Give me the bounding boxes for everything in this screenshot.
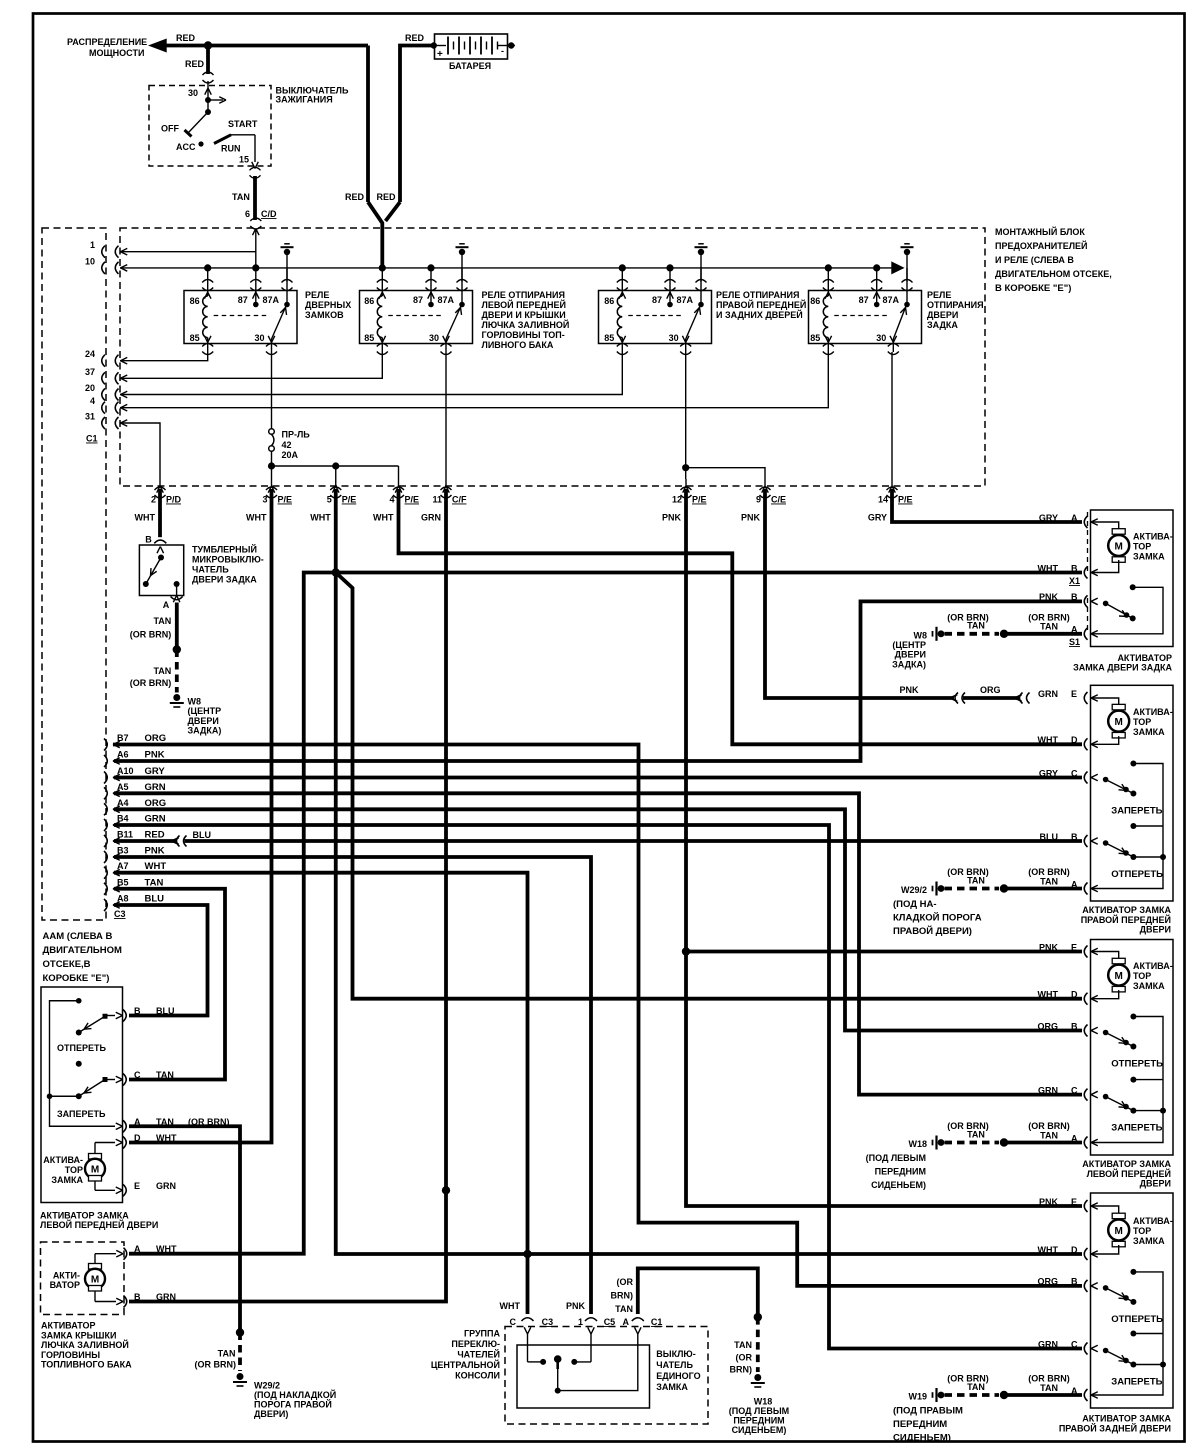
svg-text:ОТПЕРЕТЬ: ОТПЕРЕТЬ xyxy=(1111,869,1163,880)
svg-text:ЗАМКА: ЗАМКА xyxy=(1133,981,1165,991)
svg-text:C: C xyxy=(134,1070,141,1080)
actuator pin A xyxy=(116,1123,123,1126)
svg-text:В КОРОБКЕ "Е"): В КОРОБКЕ "Е") xyxy=(995,283,1071,294)
svg-text:АКТИВАТОР ЗАМКА: АКТИВАТОР ЗАМКА xyxy=(40,1211,129,1221)
svg-text:ЧАТЕЛЕЙ: ЧАТЕЛЕЙ xyxy=(457,1349,500,1360)
svg-text:ДВЕРИ: ДВЕРИ xyxy=(188,716,219,726)
svg-text:ОТПИРАНИЯ: ОТПИРАНИЯ xyxy=(927,300,984,310)
svg-text:ЧАТЕЛЬ: ЧАТЕЛЬ xyxy=(192,565,229,575)
svg-text:BLU: BLU xyxy=(156,1006,175,1016)
svg-text:RUN: RUN xyxy=(221,144,241,154)
svg-text:S1: S1 xyxy=(1069,637,1080,647)
svg-text:37: 37 xyxy=(85,367,95,377)
svg-text:TAN: TAN xyxy=(967,875,985,885)
svg-text:ДВЕРИ ЗАДКА: ДВЕРИ ЗАДКА xyxy=(192,574,257,584)
svg-text:GRN: GRN xyxy=(1038,1085,1058,1095)
svg-text:TAN: TAN xyxy=(967,621,985,631)
svg-text:M: M xyxy=(91,1275,99,1286)
relay internal dashed link xyxy=(214,315,268,317)
svg-text:ПЕРЕДНИМ: ПЕРЕДНИМ xyxy=(733,1416,784,1426)
svg-text:СИДЕНЬЕМ): СИДЕНЬЕМ) xyxy=(732,1425,787,1435)
svg-text:РЕЛЕ ОТПИРАНИЯ: РЕЛЕ ОТПИРАНИЯ xyxy=(482,290,565,300)
svg-text:RED: RED xyxy=(377,192,397,202)
svg-text:ЗАДКА): ЗАДКА) xyxy=(188,726,222,736)
svg-text:87A: 87A xyxy=(262,295,279,305)
svg-text:ДВЕРИ: ДВЕРИ xyxy=(927,310,958,320)
actuator pin B xyxy=(116,1298,123,1301)
connector 6 C/D xyxy=(250,218,261,221)
svg-text:ДВЕРИ: ДВЕРИ xyxy=(1140,1179,1171,1189)
relay coil xyxy=(203,296,208,338)
wire WHT pin 4 to right front door actuator pin D xyxy=(399,489,1083,744)
switch actuator xyxy=(554,1355,562,1363)
svg-text:ЗАПЕРЕТЬ: ЗАПЕРЕТЬ xyxy=(57,1109,106,1119)
svg-text:ДВЕРИ: ДВЕРИ xyxy=(895,650,926,660)
svg-text:B: B xyxy=(134,1006,141,1016)
svg-text:ДВЕРИ И КРЫШКИ: ДВЕРИ И КРЫШКИ xyxy=(482,310,566,320)
svg-text:ORG: ORG xyxy=(145,798,167,809)
svg-text:(OR BRN): (OR BRN) xyxy=(1028,867,1070,877)
svg-text:ACC: ACC xyxy=(176,142,196,152)
svg-text:PNK: PNK xyxy=(1039,942,1059,952)
svg-text:ЗАМКА: ЗАМКА xyxy=(1133,1236,1165,1246)
svg-text:WHT: WHT xyxy=(1038,1245,1059,1255)
wire fuse output xyxy=(271,452,273,480)
fuse distribution wire xyxy=(272,465,399,467)
svg-text:ЗАДКА: ЗАДКА xyxy=(927,320,958,330)
svg-text:(OR BRN): (OR BRN) xyxy=(130,678,172,688)
svg-text:C/F: C/F xyxy=(452,495,467,505)
svg-text:ЛЮЧКА ЗАЛИВНОЙ: ЛЮЧКА ЗАЛИВНОЙ xyxy=(482,319,570,330)
relay pin 87 xyxy=(876,268,878,303)
svg-text:B: B xyxy=(1071,563,1078,573)
svg-text:PNK: PNK xyxy=(1039,1197,1059,1207)
svg-text:E: E xyxy=(1071,942,1077,952)
svg-text:W8: W8 xyxy=(188,697,202,707)
svg-text:W29/2: W29/2 xyxy=(254,1380,280,1390)
svg-text:20: 20 xyxy=(85,383,95,393)
relay contact arm 30-87A xyxy=(446,306,461,339)
actuator motor xyxy=(1112,1213,1125,1219)
svg-text:RED: RED xyxy=(345,192,365,202)
svg-text:PNK: PNK xyxy=(741,513,761,523)
ground above relay K3 xyxy=(698,243,704,245)
svg-text:(ПОД ПРАВЫМ: (ПОД ПРАВЫМ xyxy=(893,1406,963,1417)
svg-text:(OR BRN): (OR BRN) xyxy=(130,630,172,640)
svg-text:АКТИВАТОР ЗАМКА: АКТИВАТОР ЗАМКА xyxy=(1082,1414,1171,1424)
svg-text:ВАТОР: ВАТОР xyxy=(50,1280,80,1290)
svg-text:(OR BRN): (OR BRN) xyxy=(195,1359,237,1369)
svg-text:ЛИВНОГО БАКА: ЛИВНОГО БАКА xyxy=(482,340,554,350)
svg-text:ПЕРЕКЛЮ-: ПЕРЕКЛЮ- xyxy=(451,1339,500,1349)
svg-text:ЗАПЕРЕТЬ: ЗАПЕРЕТЬ xyxy=(1111,1377,1162,1388)
svg-text:GRY: GRY xyxy=(145,766,166,777)
wire WHT pin 5 trunk xyxy=(334,489,338,573)
svg-text:МОНТАЖНЫЙ БЛОК: МОНТАЖНЫЙ БЛОК xyxy=(995,226,1085,237)
svg-text:ЗАМКА ДВЕРИ ЗАДКА: ЗАМКА ДВЕРИ ЗАДКА xyxy=(1073,663,1172,673)
svg-text:5: 5 xyxy=(327,495,332,505)
actuator motor xyxy=(1112,958,1125,964)
middle free contact xyxy=(1130,823,1136,829)
svg-text:ПРЕДОХРАНИТЕЛЕЙ: ПРЕДОХРАНИТЕЛЕЙ xyxy=(995,240,1088,251)
svg-text:14: 14 xyxy=(878,495,888,505)
wire WHT pin 2 to tailgate microswitch xyxy=(158,489,162,537)
svg-text:(ПОД ЛЕВЫМ: (ПОД ЛЕВЫМ xyxy=(866,1153,926,1163)
svg-text:TAN: TAN xyxy=(153,666,171,676)
svg-text:TAN: TAN xyxy=(153,616,171,626)
ground above relay K1 xyxy=(284,243,290,245)
battery terminals xyxy=(431,42,437,48)
svg-text:ЗАМКА КРЫШКИ: ЗАМКА КРЫШКИ xyxy=(41,1330,116,1340)
wire ORG B7 to right rear door actuator pin B xyxy=(113,745,1082,1286)
svg-text:-: - xyxy=(501,46,504,56)
wire relay K4 85 to pin 4 xyxy=(120,352,828,408)
svg-text:TAN: TAN xyxy=(156,1070,174,1080)
svg-text:КОРОБКЕ "Е"): КОРОБКЕ "Е") xyxy=(43,973,110,984)
relay box at x=598.5 xyxy=(599,291,712,344)
svg-text:PNK: PNK xyxy=(145,750,165,761)
svg-text:RED: RED xyxy=(145,830,165,841)
relay pin 87 xyxy=(669,268,671,303)
svg-text:ЦЕНТРАЛЬНОЙ: ЦЕНТРАЛЬНОЙ xyxy=(431,1359,500,1370)
block pin 3 P/E xyxy=(268,486,271,493)
wire WHT branch to fuel filler actuator pin A xyxy=(129,573,336,1254)
relay coil xyxy=(823,296,828,338)
switch common bar xyxy=(1091,764,1163,889)
svg-text:WHT: WHT xyxy=(1038,735,1059,745)
ground above relay K2 xyxy=(459,243,465,245)
ground W8 left xyxy=(173,694,180,701)
relay contact arm 30-87A xyxy=(272,306,287,339)
upper switch arm xyxy=(1103,777,1109,783)
svg-text:P/E: P/E xyxy=(405,495,420,505)
svg-text:86: 86 xyxy=(190,296,200,306)
svg-text:ПЕРЕДНИМ: ПЕРЕДНИМ xyxy=(875,1167,926,1177)
svg-text:ААМ (СЛЕВА В: ААМ (СЛЕВА В xyxy=(43,931,113,942)
wire ORG segment xyxy=(963,696,1019,700)
svg-text:АКТИВА-: АКТИВА- xyxy=(43,1155,83,1165)
svg-text:TAN: TAN xyxy=(145,877,164,888)
svg-text:D: D xyxy=(1071,1245,1078,1255)
svg-text:P/E: P/E xyxy=(898,495,913,505)
wire WHT pin 3 to left door actuator pin D xyxy=(129,489,272,1143)
tailgate switch arm xyxy=(1103,601,1109,607)
svg-text:BLU: BLU xyxy=(145,894,165,905)
svg-text:C3: C3 xyxy=(114,909,126,919)
svg-text:TAN: TAN xyxy=(1040,1130,1058,1140)
door actuator box xyxy=(1091,940,1174,1156)
wire ORG A4 to left front door actuator pin B xyxy=(114,809,1082,1030)
svg-text:30: 30 xyxy=(876,333,886,343)
relay internal dashed link xyxy=(628,315,681,317)
relay box at x=808.5 xyxy=(809,291,922,344)
wire RED down-left xyxy=(366,46,370,203)
svg-text:GRY: GRY xyxy=(1039,513,1058,523)
block pin 9 C/E xyxy=(762,486,765,493)
relay box at x=184 xyxy=(184,291,297,344)
svg-text:3: 3 xyxy=(262,495,267,505)
svg-text:ПРАВОЙ ДВЕРИ): ПРАВОЙ ДВЕРИ) xyxy=(893,925,972,937)
actuator pin E xyxy=(116,1187,123,1190)
svg-text:1: 1 xyxy=(578,1317,583,1327)
svg-text:START: START xyxy=(228,119,258,129)
svg-text:ТОР: ТОР xyxy=(65,1165,83,1175)
svg-text:87: 87 xyxy=(413,295,423,305)
svg-text:(ЦЕНТР: (ЦЕНТР xyxy=(892,640,926,650)
block pin 2 P/D xyxy=(157,486,160,493)
wire WHT branch to right rear door actuator pin D xyxy=(336,573,1082,1255)
svg-text:GRY: GRY xyxy=(868,513,887,523)
ignition internal node xyxy=(205,97,211,103)
ground W18 under left front seat xyxy=(754,1374,761,1381)
svg-text:WHT: WHT xyxy=(310,513,331,523)
svg-text:10: 10 xyxy=(85,256,95,266)
svg-text:85: 85 xyxy=(810,333,820,343)
svg-text:ОТСЕКЕ,В: ОТСЕКЕ,В xyxy=(43,959,91,970)
svg-text:W18: W18 xyxy=(754,1397,773,1407)
wire TAN to ground W8 xyxy=(175,603,179,650)
ground above relay K4 xyxy=(904,243,910,245)
single lock switch box xyxy=(517,1345,650,1408)
svg-text:(OR: (OR xyxy=(617,1277,634,1287)
svg-text:ЗАМКА: ЗАМКА xyxy=(51,1175,83,1185)
svg-text:M: M xyxy=(1115,1226,1123,1237)
wire START to pin 15 xyxy=(230,134,255,136)
switch common bar xyxy=(50,1001,116,1127)
wire RED to ignition switch xyxy=(206,46,210,75)
svg-text:C5: C5 xyxy=(604,1317,616,1327)
svg-text:BLU: BLU xyxy=(193,830,212,840)
svg-text:ЗАМКА: ЗАМКА xyxy=(656,1382,688,1392)
svg-text:ПРАВОЙ ПЕРЕДНЕЙ: ПРАВОЙ ПЕРЕДНЕЙ xyxy=(716,299,806,310)
svg-text:A: A xyxy=(1071,513,1078,523)
door actuator box xyxy=(1091,685,1174,901)
svg-text:12: 12 xyxy=(672,495,682,505)
svg-text:WHT: WHT xyxy=(246,513,267,523)
svg-text:АКТИВАТОР: АКТИВАТОР xyxy=(1117,653,1172,663)
svg-text:ДВИГАТЕЛЬНОМ ОТСЕКЕ,: ДВИГАТЕЛЬНОМ ОТСЕКЕ, xyxy=(995,269,1112,279)
svg-text:ТУМБЛЕРНЫЙ: ТУМБЛЕРНЫЙ xyxy=(192,544,257,555)
svg-text:W8: W8 xyxy=(914,630,928,640)
svg-text:ДВЕРИ: ДВЕРИ xyxy=(1140,925,1171,935)
wire PNK pin 12 xyxy=(686,489,1082,1206)
wire TAN console pin A to ground W18 xyxy=(638,1268,758,1317)
relay coil xyxy=(617,296,622,338)
svg-text:4: 4 xyxy=(90,396,95,406)
wire WHT branch to tailgate actuator pin B xyxy=(336,571,1082,575)
left front door lock actuator box xyxy=(41,987,123,1203)
connector on RED wire xyxy=(203,72,214,75)
lower switch arm xyxy=(1103,1094,1109,1100)
svg-text:11: 11 xyxy=(432,495,442,505)
relay pin 87A xyxy=(286,268,288,303)
wire relay K2 30 to pin 11 xyxy=(445,352,447,479)
switch common bar xyxy=(1091,1017,1163,1143)
svg-text:ТОР: ТОР xyxy=(1133,717,1151,727)
wire GRY pin 14 to tailgate actuator pin A xyxy=(892,489,1082,522)
ignition switch box xyxy=(149,86,271,167)
battery xyxy=(435,34,508,59)
svg-text:ЛЕВОЙ ПЕРЕДНЕЙ: ЛЕВОЙ ПЕРЕДНЕЙ xyxy=(482,299,566,310)
svg-text:КЛАДКОЙ ПОРОГА: КЛАДКОЙ ПОРОГА xyxy=(893,912,982,924)
svg-text:ВЫКЛЮ-: ВЫКЛЮ- xyxy=(656,1349,695,1359)
svg-text:ЗАМКА: ЗАМКА xyxy=(1133,552,1165,562)
wire GRN A5 to left front door actuator pin C xyxy=(114,793,1082,1094)
svg-text:(OR: (OR xyxy=(736,1352,753,1362)
svg-text:СИДЕНЬЕМ): СИДЕНЬЕМ) xyxy=(893,1433,951,1444)
wire to block pin 5 xyxy=(335,466,337,479)
svg-text:WHT: WHT xyxy=(156,1244,177,1254)
relay internal dashed link xyxy=(388,315,442,317)
V merge of RED wires xyxy=(368,202,382,268)
fuel filler lock actuator box xyxy=(41,1242,125,1315)
svg-text:W19: W19 xyxy=(908,1392,927,1402)
wire relay K1 85 to pin 24 xyxy=(120,352,208,361)
block pin 11 C/F xyxy=(443,486,446,493)
svg-text:6: 6 xyxy=(245,209,250,219)
svg-text:ЗАЖИГАНИЯ: ЗАЖИГАНИЯ xyxy=(276,95,333,105)
actuator motor xyxy=(1112,704,1125,710)
relay contact arm 30-87A xyxy=(686,306,700,339)
tailgate switch common xyxy=(1130,584,1136,590)
svg-text:C: C xyxy=(1071,768,1078,778)
svg-text:GRN: GRN xyxy=(1038,689,1058,699)
relay pin 87A xyxy=(700,268,702,303)
svg-text:ПЕРЕДНИМ: ПЕРЕДНИМ xyxy=(893,1419,947,1430)
ground W29/2 left xyxy=(237,1373,244,1380)
svg-text:4: 4 xyxy=(389,495,394,505)
svg-text:24: 24 xyxy=(85,349,95,359)
svg-text:M: M xyxy=(1115,971,1123,982)
AAM module box (dashed) xyxy=(42,228,106,920)
svg-text:TAN: TAN xyxy=(1040,622,1058,632)
wire PNK pin 9 to right front door actuator pin E xyxy=(765,489,954,698)
motor wiring xyxy=(1091,522,1119,531)
svg-text:E: E xyxy=(1071,689,1077,699)
svg-text:ЛЕВОЙ ПЕРЕДНЕЙ: ЛЕВОЙ ПЕРЕДНЕЙ xyxy=(1087,1168,1171,1179)
svg-text:ТОПЛИВНОГО БАКА: ТОПЛИВНОГО БАКА xyxy=(41,1360,132,1370)
relay coil xyxy=(377,296,382,338)
svg-text:РЕЛЕ: РЕЛЕ xyxy=(305,290,329,300)
svg-text:E: E xyxy=(134,1181,140,1191)
svg-text:GRN: GRN xyxy=(145,782,166,793)
wire relay K3 30 to pins 12 and 9 xyxy=(685,352,687,479)
ignition switch arm xyxy=(188,112,208,133)
svg-text:ЛЮЧКА ЗАЛИВНОЙ: ЛЮЧКА ЗАЛИВНОЙ xyxy=(41,1339,129,1350)
svg-text:КОНСОЛИ: КОНСОЛИ xyxy=(455,1371,500,1381)
svg-text:30: 30 xyxy=(254,333,264,343)
svg-text:GRN: GRN xyxy=(1038,1339,1058,1349)
relay pin 86 xyxy=(621,268,623,296)
svg-text:OFF: OFF xyxy=(161,124,179,134)
block pin 12 P/E xyxy=(683,486,686,493)
svg-text:(ПОД ЛЕВЫМ: (ПОД ЛЕВЫМ xyxy=(729,1406,789,1416)
svg-text:TAN: TAN xyxy=(967,1129,985,1139)
relay pin 86 xyxy=(207,268,209,296)
svg-text:WHT: WHT xyxy=(156,1133,177,1143)
svg-text:РАСПРЕДЕЛЕНИЕ: РАСПРЕДЕЛЕНИЕ xyxy=(67,37,147,47)
svg-text:M: M xyxy=(1115,541,1123,552)
svg-text:ОТПЕРЕТЬ: ОТПЕРЕТЬ xyxy=(1111,1314,1163,1325)
svg-text:15: 15 xyxy=(239,155,249,165)
svg-text:87A: 87A xyxy=(676,295,693,305)
switch common to pin A xyxy=(557,1369,559,1391)
relay pin 87A xyxy=(461,268,463,303)
svg-text:31: 31 xyxy=(85,412,95,422)
wire TAN from ignition xyxy=(253,176,257,220)
relay pin 86 xyxy=(381,268,383,296)
svg-text:АКТИВАТОР ЗАМКА: АКТИВАТОР ЗАМКА xyxy=(1082,1159,1171,1169)
svg-text:RED: RED xyxy=(405,33,425,43)
wire into fuse block xyxy=(255,229,257,268)
inline connector PNK-ORG xyxy=(955,693,958,704)
svg-text:И ЗАДНИХ ДВЕРЕЙ: И ЗАДНИХ ДВЕРЕЙ xyxy=(716,309,803,320)
svg-text:20А: 20А xyxy=(282,450,299,460)
block pin 5 P/E xyxy=(332,486,335,493)
svg-text:87A: 87A xyxy=(437,295,454,305)
wire RED B11 segment xyxy=(114,839,176,843)
svg-text:(OR BRN): (OR BRN) xyxy=(1028,613,1070,623)
svg-text:ЕДИНОГО: ЕДИНОГО xyxy=(656,1371,700,1381)
svg-text:ОТПЕРЕТЬ: ОТПЕРЕТЬ xyxy=(57,1043,106,1053)
relay pin 87 xyxy=(255,268,257,303)
svg-text:TAN: TAN xyxy=(1040,1383,1058,1393)
wire GRN B4 to right rear door actuator pin C xyxy=(114,825,1082,1349)
inline connector RED-BLU xyxy=(177,836,180,847)
svg-text:1: 1 xyxy=(90,240,95,250)
svg-text:P/E: P/E xyxy=(278,495,293,505)
svg-text:ДВЕРНЫХ: ДВЕРНЫХ xyxy=(305,300,351,310)
svg-text:TAN: TAN xyxy=(734,1340,752,1350)
svg-text:B: B xyxy=(1071,1277,1078,1287)
switch common bar xyxy=(1091,1272,1163,1395)
svg-text:АКТИВА-: АКТИВА- xyxy=(1133,532,1173,542)
svg-text:ЧАТЕЛЬ: ЧАТЕЛЬ xyxy=(656,1360,693,1370)
wire relay K3 85 to pin 20 xyxy=(120,352,622,395)
wire BLU to right front door actuator pin B xyxy=(185,839,1083,843)
power bus inside fuse block xyxy=(120,267,894,269)
svg-text:C: C xyxy=(510,1317,517,1327)
svg-text:BLU: BLU xyxy=(1040,832,1059,842)
svg-text:BRN): BRN) xyxy=(730,1365,753,1375)
svg-text:B: B xyxy=(1071,592,1078,602)
door actuator box xyxy=(1091,1193,1174,1408)
svg-text:85: 85 xyxy=(604,333,614,343)
svg-text:TAN: TAN xyxy=(232,192,250,202)
wire PNK B3 to console switch pin 1 xyxy=(114,857,591,1314)
relay pin 87 xyxy=(430,268,432,303)
svg-text:ГОРЛОВИНЫ ТОП-: ГОРЛОВИНЫ ТОП- xyxy=(482,330,565,340)
svg-text:ЗАМКА: ЗАМКА xyxy=(1133,727,1165,737)
svg-text:85: 85 xyxy=(190,333,200,343)
RUN contact xyxy=(214,135,231,144)
svg-text:42: 42 xyxy=(282,440,292,450)
svg-text:TAN: TAN xyxy=(615,1304,633,1314)
svg-text:ПОРОГА ПРАВОЙ: ПОРОГА ПРАВОЙ xyxy=(254,1398,332,1409)
svg-text:(ЦЕНТР: (ЦЕНТР xyxy=(188,706,222,716)
svg-text:ОТПЕРЕТЬ: ОТПЕРЕТЬ xyxy=(1111,1059,1163,1070)
junction GRN with left door actuator pin E xyxy=(442,1186,450,1194)
wire pin 1 to C/D xyxy=(120,251,256,253)
svg-text:PNK: PNK xyxy=(145,846,165,857)
svg-text:WHT: WHT xyxy=(373,513,394,523)
svg-text:МОЩНОСТИ: МОЩНОСТИ xyxy=(89,48,144,58)
svg-text:GRN: GRN xyxy=(156,1181,176,1191)
svg-text:ORG: ORG xyxy=(980,685,1001,695)
svg-text:C/D: C/D xyxy=(261,209,277,219)
fuse and relay block (dashed) xyxy=(120,228,985,486)
svg-text:ЗАПЕРЕТЬ: ЗАПЕРЕТЬ xyxy=(1111,806,1162,817)
